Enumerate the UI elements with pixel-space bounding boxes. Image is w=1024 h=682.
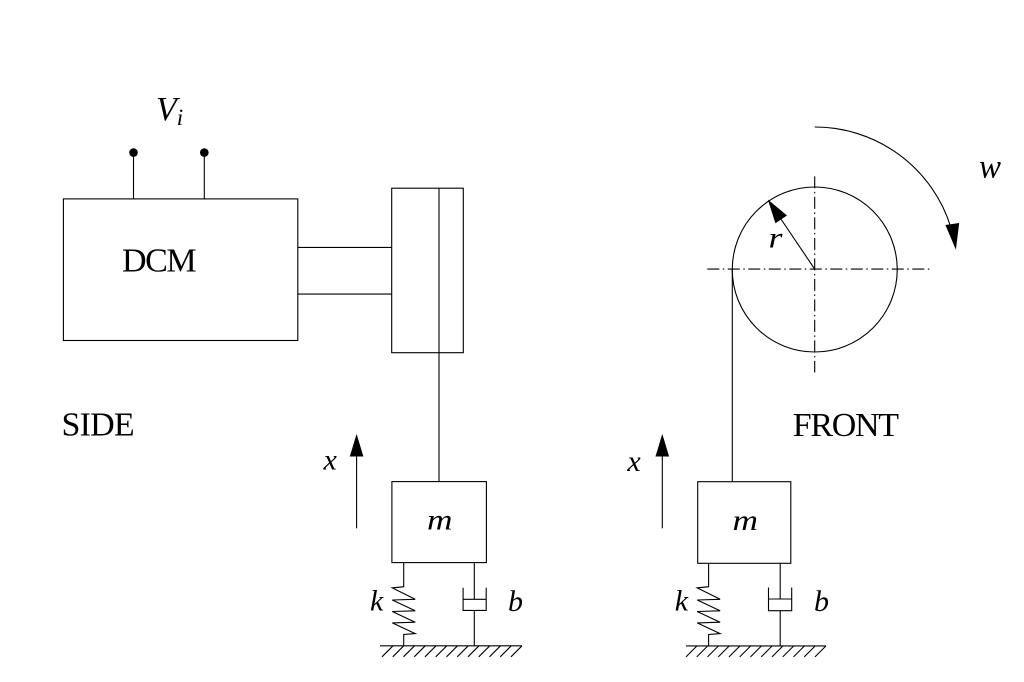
svg-text:x: x — [626, 445, 641, 478]
svg-text:b: b — [508, 585, 523, 618]
svg-text:b: b — [814, 585, 829, 618]
svg-text:DCM: DCM — [122, 242, 196, 279]
svg-text:x: x — [323, 443, 338, 476]
svg-text:r: r — [769, 222, 783, 255]
svg-text:FRONT: FRONT — [793, 407, 899, 444]
svg-text:k: k — [675, 585, 689, 618]
svg-text:k: k — [370, 585, 384, 618]
svg-text:w: w — [979, 149, 1001, 186]
svg-text:SIDE: SIDE — [62, 406, 134, 443]
svg-text:m: m — [427, 504, 453, 537]
svg-text:m: m — [733, 504, 759, 537]
